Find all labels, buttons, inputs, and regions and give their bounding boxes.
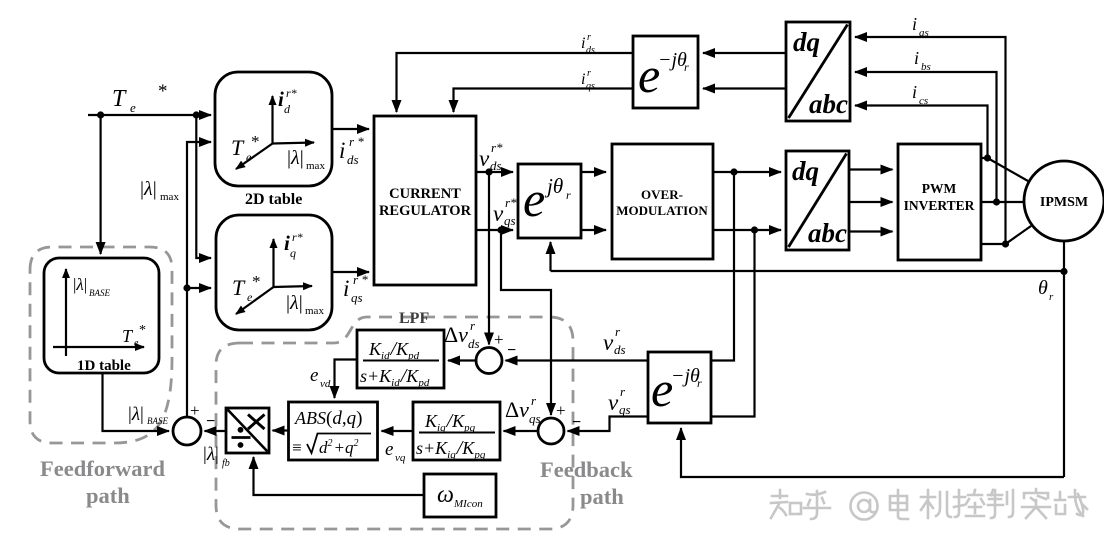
svg-text:|λ|: |λ|	[203, 444, 219, 465]
block 1D table	[44, 258, 159, 374]
block omega MIcon	[424, 474, 496, 517]
svg-text:fb: fb	[222, 458, 230, 469]
svg-text:2D table: 2D table	[245, 191, 302, 208]
feedback path dashed region	[216, 317, 573, 529]
svg-text:dq: dq	[792, 156, 819, 186]
svg-text:−: −	[572, 414, 581, 431]
label vqs r*	[493, 195, 517, 228]
wire ias sense	[855, 37, 1006, 244]
svg-text:r: r	[1049, 291, 1054, 303]
svg-text:d2+q2: d2+q2	[319, 438, 358, 457]
wire OM to dq/abc b	[713, 229, 781, 231]
svg-text:i: i	[912, 14, 917, 34]
feedforward path dashed region	[30, 247, 172, 443]
wire OM to dq/abc a	[713, 171, 781, 173]
svg-text:e: e	[310, 365, 318, 386]
svg-text:MODULATION: MODULATION	[616, 203, 708, 218]
svg-text:v: v	[479, 146, 490, 171]
实	[1022, 489, 1050, 518]
svg-text:qs: qs	[529, 411, 541, 426]
svg-text:PWM: PWM	[922, 181, 957, 196]
wire theta-r bus	[551, 270, 1065, 272]
战	[1055, 490, 1087, 516]
svg-text:+: +	[190, 401, 200, 420]
wire vds r* down to sum	[488, 172, 490, 345]
svg-text:r: r	[587, 32, 591, 43]
svg-text:max: max	[306, 160, 325, 172]
svg-text:ω: ω	[437, 482, 454, 508]
label delta-vqs r	[505, 393, 541, 426]
svg-text:r *: r *	[349, 134, 364, 149]
wire ABS to divider	[273, 429, 289, 431]
wire ids r* to current regulator	[332, 128, 369, 130]
wire PWM to motor b	[981, 201, 1023, 203]
label vds r*	[479, 140, 503, 173]
svg-text:vq: vq	[395, 452, 406, 464]
svg-text:OVER-: OVER-	[641, 187, 683, 202]
wire vqs r* down to sum	[501, 230, 551, 415]
svg-text:r*: r*	[505, 195, 517, 210]
svg-text:ds: ds	[490, 158, 502, 173]
label delta-vds r	[444, 318, 480, 351]
block 2D table iq	[216, 215, 332, 330]
svg-text:LPF: LPF	[399, 310, 429, 327]
wire 1D table output lambda-BASE	[103, 372, 170, 431]
wire vds r* to e^jth	[476, 171, 513, 173]
block e^-jth lower	[648, 352, 711, 423]
svg-text:−: −	[206, 413, 215, 430]
svg-text:BASE: BASE	[147, 416, 168, 426]
svg-text:path: path	[86, 483, 130, 508]
block PWM inverter	[898, 144, 981, 260]
乎	[804, 491, 830, 519]
svg-text:Feedforward: Feedforward	[40, 456, 165, 481]
svg-text:r: r	[587, 68, 591, 79]
svg-text:r: r	[684, 60, 689, 74]
block ABS	[289, 402, 378, 460]
block d-axis LPF	[357, 330, 444, 389]
label e-vq	[385, 439, 406, 464]
block dq/abc lower	[786, 151, 849, 250]
svg-text:IPMSM: IPMSM	[1040, 195, 1088, 210]
wire ibs sense	[855, 72, 997, 202]
block e^jth	[518, 164, 581, 238]
电	[890, 490, 908, 519]
wire dq/abc top to e^-jth b	[703, 87, 786, 89]
wire dq/abc to PWM b	[849, 201, 893, 203]
svg-text:cs: cs	[919, 95, 928, 107]
svg-text:−jθ: −jθ	[671, 365, 700, 387]
svg-text:v: v	[608, 390, 619, 415]
svg-text:i: i	[581, 35, 585, 52]
label feedforward path	[40, 456, 165, 508]
svg-text:|λ|: |λ|	[140, 178, 157, 200]
wire lambda-max from summer up to 2D id table	[187, 142, 211, 417]
label ids r*	[339, 134, 364, 167]
svg-text:e: e	[247, 290, 253, 304]
wire e^jth to overmodulation a	[581, 171, 606, 173]
wire ids r feedback to current regulator	[397, 53, 634, 112]
wire vds r down to e^-jth lower	[712, 172, 734, 361]
svg-text:*: *	[139, 323, 146, 338]
svg-text:|λ|: |λ|	[128, 404, 144, 425]
svg-text:r*: r*	[286, 86, 297, 100]
svg-text:*: *	[158, 81, 168, 102]
svg-text:max: max	[160, 191, 179, 203]
svg-text:≡: ≡	[292, 438, 302, 457]
wire iqs r feedback to current regulator	[454, 89, 634, 113]
svg-text:1D table: 1D table	[77, 358, 131, 374]
label ibs	[914, 48, 931, 73]
svg-text:vd: vd	[320, 378, 331, 390]
svg-text:e: e	[246, 150, 252, 164]
block dq/abc upper	[786, 22, 850, 121]
svg-text:θ: θ	[1038, 277, 1048, 299]
motor IPMSM	[1024, 161, 1104, 241]
svg-text:REGULATOR: REGULATOR	[379, 203, 472, 219]
svg-text:qs: qs	[351, 290, 363, 305]
block q-axis LPF	[413, 402, 500, 461]
svg-text:max: max	[305, 305, 324, 317]
svg-text:e: e	[385, 439, 393, 460]
wire delta-vqs to q LPF	[504, 430, 539, 432]
svg-text:+: +	[556, 401, 566, 420]
svg-text:e: e	[523, 171, 545, 227]
svg-text:|λ|: |λ|	[73, 275, 87, 294]
label Te* input	[112, 81, 168, 115]
svg-text:*: *	[251, 132, 260, 151]
wire ics sense	[855, 106, 988, 159]
svg-text:ds: ds	[586, 45, 595, 56]
svg-text:abc: abc	[809, 89, 848, 119]
svg-text:ds: ds	[614, 342, 626, 357]
wire lambda-max branch to 2D iq table	[187, 287, 211, 289]
svg-text:r: r	[566, 188, 571, 202]
block current regulator	[374, 116, 476, 285]
svg-text:as: as	[919, 27, 929, 39]
svg-text:T: T	[232, 275, 246, 300]
制	[988, 490, 1013, 518]
svg-text:path: path	[580, 484, 624, 509]
svg-text:T: T	[112, 86, 127, 112]
svg-text:MIcon: MIcon	[453, 498, 483, 510]
svg-text:CURRENT: CURRENT	[389, 186, 461, 202]
svg-text:e: e	[130, 100, 136, 115]
svg-text:Δv: Δv	[505, 397, 529, 422]
label ias	[912, 14, 929, 39]
svg-text:r *: r *	[353, 272, 368, 287]
label feedback path	[540, 457, 633, 509]
svg-text:*: *	[252, 272, 261, 291]
block e^-jth upper	[633, 36, 698, 108]
wire vqs r to sum	[568, 417, 649, 432]
svg-text:Δv: Δv	[444, 322, 468, 347]
label iqs r small	[581, 68, 595, 92]
wire Te* down to 2D iq table	[196, 115, 211, 258]
wire delta-vds to d LPF	[448, 359, 476, 361]
@	[851, 493, 878, 520]
label e-vd	[310, 365, 331, 390]
wire divider to summer	[205, 430, 227, 432]
svg-text:e: e	[134, 338, 139, 349]
label theta-r	[1038, 277, 1054, 303]
svg-text:T: T	[231, 135, 245, 160]
wire vqs r down to e^-jth lower	[712, 230, 755, 417]
wire theta-r loop to e^-jth lower	[681, 428, 1064, 477]
wire iqs r* to current regulator	[332, 271, 369, 273]
label ids r small	[581, 32, 595, 56]
label lambda-fb	[203, 444, 230, 469]
wire vqs r* to e^jth	[476, 229, 513, 231]
svg-text:i: i	[343, 276, 349, 301]
svg-text:INVERTER: INVERTER	[904, 198, 975, 213]
控	[954, 490, 984, 517]
wire vds r to sum	[506, 359, 649, 361]
svg-text:e: e	[638, 47, 660, 103]
svg-text:i: i	[914, 48, 919, 68]
svg-text:i: i	[339, 138, 345, 163]
label lambda-max left	[140, 178, 179, 203]
svg-text:|λ|: |λ|	[287, 147, 304, 169]
svg-text:q: q	[290, 246, 296, 260]
wire dq/abc top to e^-jth a	[703, 52, 786, 54]
svg-text:bs: bs	[921, 61, 931, 73]
svg-text:qs: qs	[504, 213, 516, 228]
block 2D table id	[215, 72, 332, 186]
wire e-vd to ABS	[335, 360, 358, 399]
svg-text:r*: r*	[491, 140, 503, 155]
label ics	[912, 82, 928, 107]
label vds r	[603, 324, 626, 357]
svg-text:d: d	[284, 102, 291, 116]
wire e-vq to ABS	[382, 430, 414, 432]
svg-text:−: −	[507, 342, 516, 359]
summer delta vqs	[538, 418, 564, 444]
wire PWM to motor c	[981, 226, 1031, 244]
svg-text:dq: dq	[793, 27, 820, 57]
svg-text:Feedback: Feedback	[540, 457, 633, 482]
wire e^jth to overmodulation b	[581, 229, 606, 231]
svg-text:|λ|: |λ|	[286, 292, 303, 314]
summer lambda	[173, 417, 201, 445]
wire dq/abc to PWM a	[849, 168, 893, 170]
svg-text:abc: abc	[808, 218, 847, 248]
svg-text:r: r	[697, 376, 702, 390]
svg-text:jθ: jθ	[544, 174, 563, 198]
svg-text:+: +	[494, 330, 504, 349]
svg-text:v: v	[603, 330, 614, 355]
svg-text:i: i	[581, 71, 585, 88]
机	[921, 490, 951, 518]
wire theta-r from motor down	[1063, 241, 1065, 477]
wire PWM to motor a	[981, 158, 1028, 181]
watermark 知乎 @电机控制实战 (drawn strokes, light gray)	[771, 489, 1087, 520]
block divider	[226, 408, 269, 453]
svg-text:(d,q): (d,q)	[326, 408, 362, 429]
svg-text:ds: ds	[347, 152, 359, 167]
svg-text:ABS: ABS	[294, 408, 326, 428]
知	[771, 490, 801, 518]
block over-modulation	[612, 144, 713, 259]
svg-text:i: i	[912, 82, 917, 102]
wire Te* down to 1D table	[99, 115, 101, 254]
label lambda-BASE	[128, 404, 168, 426]
wire omega MIcon to divider	[254, 457, 425, 495]
svg-text:v: v	[493, 201, 504, 226]
summer delta vds	[476, 348, 502, 374]
svg-text:r*: r*	[292, 230, 303, 244]
svg-text:ds: ds	[468, 336, 480, 351]
svg-text:BASE: BASE	[89, 288, 110, 298]
svg-text:qs: qs	[619, 402, 631, 417]
svg-text:e: e	[651, 361, 673, 417]
label vqs r	[608, 384, 631, 417]
svg-text:qs: qs	[586, 81, 595, 92]
label iqs r*	[343, 272, 368, 305]
wire dq/abc to PWM c	[849, 230, 893, 232]
svg-text:−jθ: −jθ	[658, 49, 687, 71]
wire theta-r up into e^jth	[549, 242, 551, 271]
wire Te* main input	[88, 114, 211, 116]
